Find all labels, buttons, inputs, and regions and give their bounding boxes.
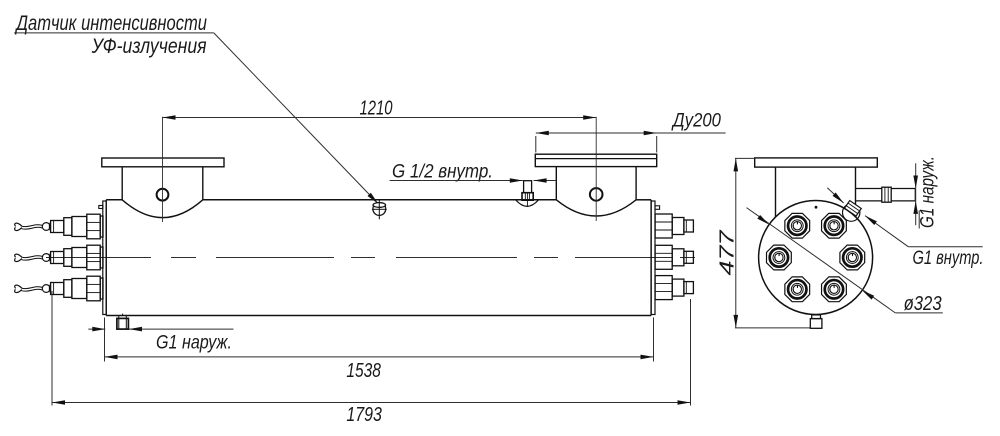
left end lug bbox=[99, 206, 103, 209]
svg-text:УФ-излучения: УФ-излучения bbox=[91, 35, 207, 58]
svg-text:477: 477 bbox=[717, 229, 739, 275]
flange A centerline bbox=[162, 117, 164, 222]
lamp socket (end) top-right bbox=[816, 208, 851, 243]
small vent hole bbox=[815, 206, 818, 209]
G 1/2 right arrow bbox=[534, 180, 557, 182]
svg-text:G1 наруж.: G1 наруж. bbox=[918, 156, 939, 228]
flange B hole bbox=[590, 188, 603, 201]
flange B plate (right nozzle, Du200) bbox=[535, 154, 656, 166]
svg-text:G1 наруж.: G1 наруж. bbox=[156, 332, 232, 353]
lamp socket (end) right bbox=[835, 240, 870, 275]
G1 drain coupling bottom left bbox=[117, 314, 128, 330]
G1 corner fitting nut bbox=[845, 201, 862, 217]
dimension G1 naruzh (right, vertical) bbox=[915, 163, 917, 225]
vessel right end plate bbox=[651, 201, 655, 315]
UV sensor label underline bbox=[14, 32, 214, 34]
drain stub bottom bbox=[810, 315, 822, 328]
vessel left end wall bbox=[105, 200, 107, 316]
lamp socket (end) top-left bbox=[780, 208, 815, 243]
centerline (vessel axis) bbox=[46, 257, 695, 259]
dimension Du200 bbox=[536, 133, 726, 153]
cable gland 1 (top) bbox=[15, 214, 103, 239]
end view nozzle neck bbox=[776, 167, 856, 217]
svg-text:1793: 1793 bbox=[346, 404, 382, 426]
G1 corner fitting boss bbox=[843, 204, 860, 221]
flange A plate (left nozzle) bbox=[102, 158, 224, 167]
vessel shell bottom edge bbox=[106, 315, 651, 317]
dimension diameter 323 bbox=[747, 208, 896, 313]
dimension 1210 bbox=[163, 117, 597, 119]
svg-text:G 1/2 внутр.: G 1/2 внутр. bbox=[392, 162, 493, 183]
cable gland 3 (bottom) bbox=[15, 276, 103, 301]
dimension 477 bbox=[735, 158, 811, 328]
cable gland 2 (middle) bbox=[15, 245, 103, 270]
UV sensor leader bbox=[214, 33, 378, 204]
vessel right end wall bbox=[650, 200, 652, 316]
flange A hole bbox=[157, 189, 169, 201]
lamp socket (end) bottom-right bbox=[816, 272, 851, 307]
dimension 1538 bbox=[105, 318, 654, 362]
lamp connector 2 (right, middle) bbox=[655, 245, 693, 269]
label G1 naruzh (bottom) bbox=[88, 328, 105, 330]
dimension 1793 bbox=[52, 291, 691, 406]
vessel left end plate bbox=[103, 201, 106, 315]
svg-text:ø323: ø323 bbox=[904, 293, 942, 315]
end view flange plate bbox=[755, 158, 878, 167]
flange B neck bbox=[556, 167, 636, 216]
svg-text:1210: 1210 bbox=[360, 98, 393, 120]
svg-text:Датчик интенсивности: Датчик интенсивности bbox=[15, 12, 207, 35]
right end lug bbox=[655, 206, 660, 210]
G1 side pipe (top right) bbox=[855, 187, 915, 202]
lamp socket (end) left bbox=[761, 240, 796, 275]
vessel shell top edge segments bbox=[106, 199, 651, 201]
lamp connector 1 (right, top) bbox=[655, 214, 693, 238]
svg-text:Ду200: Ду200 bbox=[671, 110, 721, 131]
svg-text:G1 внутр.: G1 внутр. bbox=[913, 248, 984, 269]
UV sensor body bbox=[372, 200, 387, 219]
flange B centerline bbox=[595, 117, 597, 221]
label G 1/2 shelf line bbox=[390, 180, 523, 182]
lamp connector 3 (right, bottom) bbox=[655, 276, 693, 300]
label G1 vnutr bbox=[908, 246, 982, 248]
svg-text:1538: 1538 bbox=[346, 360, 381, 382]
G 1/2 coupling on shell top bbox=[516, 181, 539, 207]
lamp socket (end) bottom-left bbox=[780, 272, 815, 307]
shell circle bbox=[759, 201, 873, 315]
flange A neck bbox=[122, 167, 203, 218]
